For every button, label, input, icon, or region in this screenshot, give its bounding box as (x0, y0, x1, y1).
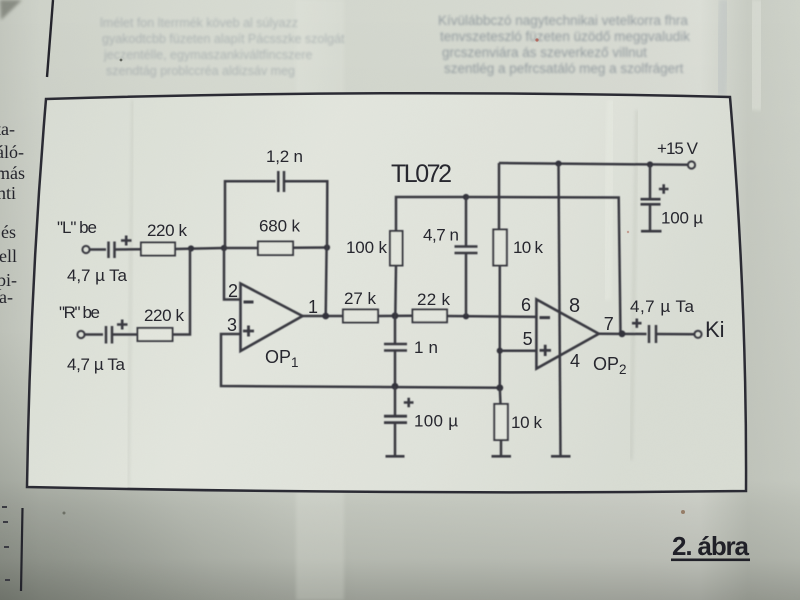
wire node to OP1 pin2 (224, 248, 241, 300)
node feedback right (324, 244, 330, 250)
resistor R8 10k bottom body (494, 404, 508, 440)
red speck in text (535, 38, 538, 41)
wire R1 to mix node (175, 248, 224, 249)
resistor R7 10k top body (493, 230, 507, 266)
node rail 100u tap (647, 161, 653, 167)
resistor R3 680k body (258, 242, 293, 256)
wire node A down through 1n to ground rail (394, 316, 397, 387)
wire OP2 output (599, 332, 647, 335)
node feedback top (463, 194, 469, 200)
schematic labels (57, 139, 725, 432)
plus mark C1 (121, 236, 132, 246)
resistor R4 27k body (343, 310, 378, 323)
plus mark C8 (632, 319, 642, 328)
ground bar under pin4 (551, 455, 571, 458)
wire 100u stubs (394, 386, 397, 456)
faint page-gutter streak top right (719, 0, 726, 95)
wire feedback-left riser (225, 181, 276, 248)
plus mark C6 (404, 398, 414, 408)
capacitor C7 100u right plates (641, 199, 661, 204)
dark top-left photo corner (0, 0, 22, 20)
capacitor C8 4,7u Ta out plates (649, 325, 656, 343)
wire C2 to R2 (112, 333, 138, 336)
paper crease lines inside frame (128, 100, 133, 486)
node ground-rail right (496, 384, 503, 391)
wire rail node to 10k bottom (500, 388, 501, 456)
wire OP1 output (303, 315, 344, 318)
input terminal L (82, 246, 89, 253)
wire L terminal to C1 (90, 248, 106, 251)
plus mark C7 (659, 184, 669, 194)
capacitor C2 4,7u Ta plates (106, 326, 112, 344)
node ground-rail left (392, 383, 399, 390)
OP1 plus mark (243, 326, 254, 337)
wire 22k to OP2 pin6 (447, 315, 536, 318)
wire pin5 (500, 349, 537, 352)
blurry newsprint text, top-left column (100, 16, 345, 78)
node OP1 output (322, 313, 329, 320)
ground bar under C6 (386, 455, 405, 458)
wire C7 stubs (649, 165, 652, 231)
node B (463, 313, 469, 319)
OP2 plus mark (540, 345, 552, 356)
node A (392, 312, 399, 319)
wire bias chain from rail (498, 163, 501, 230)
resistor R2 220k body (138, 328, 173, 341)
wire 27k to node A (378, 315, 413, 318)
wire 100k lower stub (394, 266, 397, 316)
OP2 minus mark (540, 316, 551, 319)
label OP1 (265, 347, 299, 370)
wire node to 680k (224, 247, 258, 250)
pin number labels (227, 281, 614, 371)
OP1 minus mark (244, 301, 254, 304)
plus mark C2 (117, 320, 128, 330)
op-amp OP2 triangle (536, 299, 598, 368)
wire right node down to OP1 output (324, 248, 327, 317)
label OP2 (593, 354, 627, 377)
wire 1,2n to right riser (284, 181, 327, 247)
caption 2. abra (671, 531, 750, 561)
blurry newsprint text, top-right column (438, 13, 690, 76)
right page edge light strip (753, 0, 760, 110)
capacitor C4 4,7n plates (455, 247, 478, 254)
capacitor C3 1,2n plates (278, 171, 284, 192)
wire R2 up to mix node (173, 249, 191, 335)
schematic frame interior (27, 93, 746, 492)
left margin body-text fragments (0, 119, 25, 307)
ground bar under R8 (492, 455, 512, 458)
node feedback left (221, 245, 227, 251)
paper specks (681, 510, 685, 514)
wire C8 to Ki terminal (656, 333, 695, 336)
capacitor C6 100u plates (384, 416, 407, 422)
resistor R1 220k body (141, 243, 175, 256)
node pin5 bias (497, 348, 503, 354)
+15V terminal (688, 161, 695, 168)
resistor R5 22k body (413, 310, 448, 323)
column rule line top-left (47, 0, 53, 77)
label TL072 (391, 160, 452, 188)
capacitor C5 1n plates (384, 344, 407, 351)
output terminal Ki (694, 331, 701, 338)
wire OP1 pin3 to ground rail (221, 334, 500, 388)
wire R terminal to C2 (85, 333, 103, 336)
resistor R6 100k vertical body (390, 231, 403, 266)
wire C1 to R1 (115, 248, 142, 251)
node rail pin8 tap (555, 161, 561, 167)
left margin hyphen marks bottom (2, 507, 10, 580)
node OP2 output (619, 330, 626, 337)
ground bar under C7 (641, 230, 662, 233)
schematic frame border (27, 93, 746, 492)
column rule line bottom-left (21, 508, 23, 591)
pale vertical scan band (296, 0, 344, 600)
wire 100k top to feedback line (396, 197, 466, 231)
op-amp OP1 triangle (241, 284, 303, 352)
wire feedback line to OP2 output riser (466, 197, 621, 334)
wire pin8/pin4 vertical (559, 164, 561, 456)
+15V rail (499, 163, 688, 165)
node mix L/R (188, 245, 194, 251)
input terminal R (77, 331, 84, 338)
wire 10k to pin5 node and down to rail node (499, 266, 502, 388)
wire 680k to right node (293, 246, 327, 249)
capacitor C1 4,7u Ta plates (109, 242, 115, 259)
wire 4,7n stubs (465, 197, 468, 316)
